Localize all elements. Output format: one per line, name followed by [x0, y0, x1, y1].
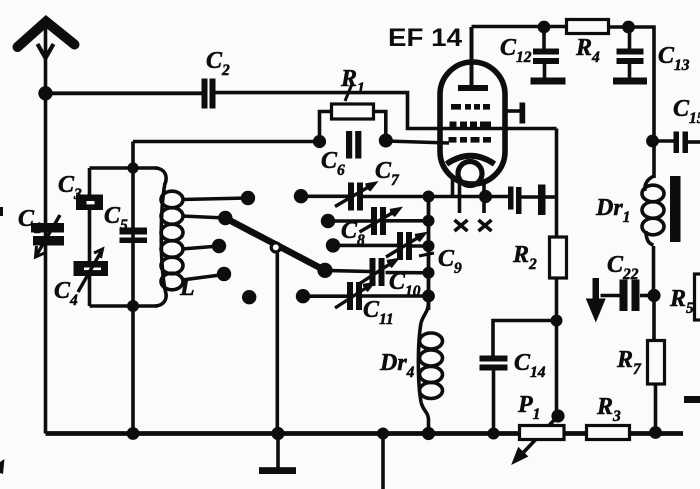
svg-text:L: L — [179, 275, 195, 301]
svg-text:EF 14: EF 14 — [388, 24, 462, 52]
